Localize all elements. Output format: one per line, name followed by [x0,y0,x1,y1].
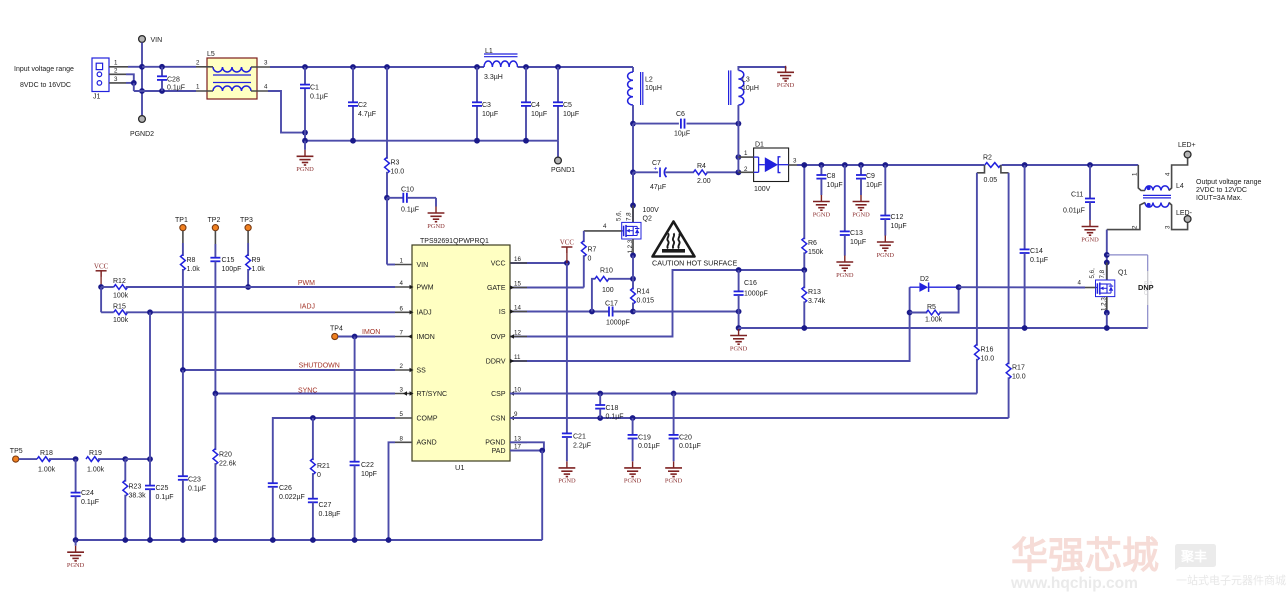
capacitor C17 [608,307,610,317]
svg-text:R13: R13 [808,289,821,296]
svg-text:3: 3 [400,387,404,394]
wire L4 pin3 to LED- [1169,203,1188,230]
pin 8 AGND U1 [395,441,412,443]
node C18 bottom [597,415,603,421]
inductor L5 [207,58,257,99]
resistor R21 [312,418,314,460]
svg-text:7,8: 7,8 [626,212,633,221]
node C10 junction [384,195,390,201]
wire D1 output stub [789,164,805,166]
wire VCC to R15 [100,287,102,312]
svg-text:100V: 100V [754,186,771,193]
svg-text:1.00k: 1.00k [87,467,105,474]
ground PGND input [304,141,306,150]
pin 4 PWM U1 [395,286,412,288]
node rail C14 [1022,162,1028,168]
node Q1 drain [1104,260,1110,266]
node rail C26 [270,537,276,543]
svg-text:4: 4 [264,84,268,91]
node ground rail C1 [302,138,308,144]
node VIN input junction [139,64,145,70]
ground PGND C8 [820,195,822,202]
inductor L3 [738,70,743,105]
svg-text:10µF: 10µF [850,239,866,246]
node D2 cathode [956,284,962,290]
node C6 right / L3 bottom [736,121,742,127]
node R18/R19 [73,456,79,462]
wire L5 pin4 to ground row [268,91,305,133]
capacitor C20 [673,394,675,435]
wire L4 pin2 [1107,203,1145,230]
resistor R10 [595,276,609,281]
svg-text:C5: C5 [563,102,572,109]
wire PAD to rail [541,451,543,541]
wire top input row to L5 [142,66,196,68]
wire Q1 source to rail [1106,313,1108,328]
svg-text:2.2µF: 2.2µF [573,443,591,450]
svg-text:10: 10 [514,387,521,394]
svg-text:R16: R16 [981,347,994,354]
svg-text:R14: R14 [637,289,650,296]
svg-text:1.00k: 1.00k [38,467,56,474]
node ground rail C3 [474,138,480,144]
svg-text:LED-: LED- [1176,210,1193,217]
svg-text:4: 4 [1078,280,1082,287]
svg-text:C13: C13 [850,230,863,237]
svg-text:PAD: PAD [492,448,506,455]
test point TP2 [212,225,218,231]
svg-text:C18: C18 [606,405,619,412]
resistor R18 [19,458,37,460]
svg-text:聚丰: 聚丰 [1180,549,1207,564]
svg-text:PGND: PGND [665,478,683,485]
ground PGND mid [738,328,740,329]
wire Q2 source to R14 [632,255,634,278]
svg-text:GATE: GATE [487,285,506,292]
node rail C27 [310,537,316,543]
svg-text:2VDC to 12VDC: 2VDC to 12VDC [1196,187,1247,194]
capacitor C26 [268,482,278,484]
svg-text:150k: 150k [808,249,824,256]
resistor R12 [101,286,114,288]
node PAD junction [539,448,545,454]
wire D1 pin2 stub [738,171,753,173]
svg-text:2: 2 [114,68,118,75]
node SYNC/C15 [213,391,219,397]
svg-text:8: 8 [400,435,404,442]
node R10/R14 junction [630,276,636,282]
test point TP1 [180,225,186,231]
svg-text:R5: R5 [927,304,936,311]
capacitor C18 [599,394,601,405]
svg-text:C11: C11 [1071,192,1083,199]
svg-text:10µF: 10µF [563,111,579,118]
svg-text:C8: C8 [827,173,836,180]
node C28 bottom [159,88,165,94]
node rail R20 [213,537,219,543]
ground PGND C12 [884,236,886,243]
svg-text:SYNC: SYNC [298,387,317,394]
svg-text:100: 100 [602,287,614,294]
connector J1 [92,58,109,92]
svg-text:PGND: PGND [813,211,831,218]
wire L3 top to PGND [738,67,785,70]
resistor R2 [985,163,1001,168]
capacitor C27 [308,498,318,500]
svg-text:10µH: 10µH [742,85,759,92]
capacitor C5 [557,67,559,102]
test point TP5 [13,456,19,462]
svg-text:DNP: DNP [1138,283,1154,292]
node C7 left [630,169,636,175]
wire VCC pin to symbol [510,262,567,264]
svg-text:PGND: PGND [1081,236,1099,243]
svg-text:C27: C27 [319,502,332,509]
node C17 left [589,309,595,315]
svg-text:2: 2 [1132,225,1139,229]
svg-text:10µF: 10µF [674,131,690,138]
transistor Q1 [1106,263,1108,281]
wire L5 pin2 stub [196,66,213,68]
svg-text:R21: R21 [317,463,330,470]
pin 11 DDRV U1 [510,360,527,362]
resistor R9 [247,231,249,243]
wire J1 pin3 [109,82,126,84]
resistor R5 [910,312,928,314]
svg-text:LED+: LED+ [1178,142,1196,149]
node C25 top [147,456,153,462]
node C2 top [350,64,356,70]
svg-text:10pF: 10pF [361,471,377,478]
svg-text:1000pF: 1000pF [744,291,768,298]
svg-text:2.00: 2.00 [697,178,711,185]
capacitor C12 [884,165,886,215]
diode D2 [910,286,920,288]
svg-text:TPS92691QPWPRQ1: TPS92691QPWPRQ1 [420,238,489,245]
test point LED- [1184,216,1191,223]
svg-text:5,6,: 5,6, [616,210,623,221]
wire to bottom input row [133,83,135,91]
svg-text:SHUTDOWN: SHUTDOWN [299,363,340,370]
svg-text:0.1µF: 0.1µF [606,414,624,421]
svg-text:AGND: AGND [417,440,437,447]
pin 16 VCC U1 [510,262,527,264]
node C14 bottom [1022,325,1028,331]
svg-text:7: 7 [400,330,404,337]
capacitor C2 [352,67,354,102]
svg-text:9: 9 [514,411,518,418]
svg-text:PGND: PGND [777,82,795,89]
svg-text:7,8: 7,8 [1099,269,1106,278]
wire IS net [510,311,609,313]
svg-text:10µF: 10µF [482,111,498,118]
svg-text:+: + [654,166,658,173]
svg-text:SS: SS [417,367,427,374]
svg-text:L5: L5 [207,51,215,58]
wire J1 pin1 to VIN node [109,66,128,68]
node rail C8 [819,162,825,168]
svg-text:10.0: 10.0 [981,356,995,363]
wire PGND sense rail [739,327,1148,329]
capacitor C14 [1024,165,1026,249]
svg-text:3: 3 [114,76,118,83]
wire bottom input row to L5 [134,90,196,92]
resistor R6 [803,165,805,239]
svg-text:PGND: PGND [296,166,314,173]
pin 2 SS U1 [395,369,412,371]
wire switch node down to Q2 [632,172,634,222]
svg-text:0: 0 [317,472,321,479]
svg-text:C10: C10 [401,187,414,194]
svg-text:PGND2: PGND2 [130,131,154,138]
svg-text:Input voltage range: Input voltage range [14,66,74,73]
ground PGND C13 [844,256,846,263]
node Q2 drain [630,203,636,209]
node C28 top [159,64,165,70]
svg-text:17: 17 [514,444,521,451]
svg-text:10µF: 10µF [531,111,547,118]
svg-text:100k: 100k [113,293,129,300]
capacitor C7 polarized [633,171,658,173]
wire L5 pin1 stub [196,90,213,92]
svg-text:R8: R8 [187,257,196,264]
node R3 top [384,64,390,70]
pin 12 OVP U1 [510,336,527,338]
resistor R1 DNP ghost [1107,254,1148,256]
capacitor C13 [844,165,846,231]
ground PGND C21 [566,461,568,468]
resistor R15 [101,311,114,313]
svg-text:R19: R19 [89,450,102,457]
svg-text:CSP: CSP [491,391,506,398]
ground PGND C20 [673,461,675,468]
svg-text:38.3k: 38.3k [129,493,147,500]
svg-text:2: 2 [400,363,404,370]
ground PGND C19 [632,461,634,468]
svg-text:PWM: PWM [298,280,315,287]
pin 3 RT/SYNC U1 [395,393,412,395]
resistor R16 [975,344,980,360]
svg-text:C20: C20 [679,435,692,442]
wire L2 column down [632,124,634,203]
svg-text:10µF: 10µF [866,182,882,189]
test point LED+ [1184,151,1191,158]
svg-text:PGND1: PGND1 [551,167,575,174]
wire PGND/PAD return [510,442,544,450]
svg-text:J1: J1 [93,94,101,101]
node rail C24 [73,537,79,543]
ground PGND C10 [435,198,437,207]
svg-text:22.6k: 22.6k [219,461,237,468]
ground PGND C11 [1089,220,1091,227]
svg-text:10µF: 10µF [827,182,843,189]
svg-text:0.18µF: 0.18µF [319,511,341,518]
node R5 left [907,310,913,316]
node rail R6 [801,162,807,168]
svg-text:TP5: TP5 [10,448,23,455]
svg-text:C15: C15 [222,257,235,264]
svg-text:PGND: PGND [427,223,445,230]
wire IMON [338,336,395,338]
svg-text:3.74k: 3.74k [808,298,826,305]
svg-text:C4: C4 [531,102,540,109]
svg-text:15: 15 [514,281,521,288]
svg-text:IOUT=3A Max.: IOUT=3A Max. [1196,195,1242,202]
wire Q2 gate stub [584,230,622,232]
wire J1 pin2 [109,73,126,75]
svg-text:TP3: TP3 [240,217,253,224]
svg-text:16: 16 [514,256,521,263]
svg-text:PWM: PWM [417,284,434,291]
node PGND2 row junction [139,88,145,94]
svg-text:2: 2 [196,60,200,67]
svg-text:4: 4 [603,223,607,230]
svg-text:TP2: TP2 [208,217,221,224]
svg-text:0.022µF: 0.022µF [279,494,305,501]
svg-text:1: 1 [400,258,404,265]
svg-text:R9: R9 [252,257,261,264]
wire to C25 [125,458,150,460]
node ground rail C2 [350,138,356,144]
wire L5 pin3 stub [251,66,272,68]
wire D1 pin1 stub [738,156,753,158]
svg-text:R6: R6 [808,240,817,247]
svg-text:VCC: VCC [491,260,506,267]
wire IS row to C16 column [633,311,739,313]
capacitor C8 [820,165,822,175]
pin 7 IMON U1 [395,336,412,338]
svg-text:1: 1 [114,60,118,67]
svg-text:C3: C3 [482,102,491,109]
wire L4 pin1 [1138,165,1145,191]
node R14 bottom [630,309,636,315]
pin 17 PAD U1 [510,450,527,452]
node C5 top [555,64,561,70]
pin 1 VIN U1 [395,264,412,266]
svg-text:R20: R20 [219,452,232,459]
svg-text:D2: D2 [920,276,929,283]
svg-text:1,2,3: 1,2,3 [1101,297,1108,311]
svg-text:0.01µF: 0.01µF [679,443,701,450]
node rail C9 [858,162,864,168]
svg-text:IMON: IMON [417,334,435,341]
svg-text:C22: C22 [361,462,374,469]
node J1 pin2/pin3 junction [131,80,137,86]
node C4 top / L1 right [523,64,529,70]
ground PGND C9 [860,195,862,202]
wire output rail [797,164,984,166]
svg-text:3: 3 [264,60,268,67]
svg-text:R23: R23 [129,484,142,491]
node rail AGND [386,537,392,543]
svg-text:PGND: PGND [67,562,85,569]
wire VCC rail down to C21 [566,263,568,433]
svg-text:1.0k: 1.0k [187,266,201,273]
wire main input rail [270,66,484,68]
svg-text:1: 1 [1132,172,1139,176]
node COMP/R21 [310,415,316,421]
node L5 pin4 / C1 column junction [302,130,308,136]
resistor R3 [386,67,388,159]
svg-text:CSN: CSN [491,415,506,422]
wire SHUTDOWN net [183,369,395,371]
node C16 bottom row [736,309,742,315]
svg-text:1000pF: 1000pF [606,320,630,327]
svg-text:C12: C12 [891,214,904,221]
resistor R4 [693,170,707,175]
svg-text:47µF: 47µF [650,184,666,191]
svg-text:PGND: PGND [558,478,576,485]
svg-text:R2: R2 [983,155,992,162]
svg-text:0.1µF: 0.1µF [167,85,185,92]
svg-text:IADJ: IADJ [417,310,432,317]
capacitor C28 [161,67,163,76]
wire IADJ column down [149,312,151,459]
svg-text:C19: C19 [638,435,651,442]
svg-text:TP1: TP1 [175,217,188,224]
node Q1 source [1104,310,1110,316]
svg-text:0.1µF: 0.1µF [81,499,99,506]
svg-text:100pF: 100pF [222,266,242,273]
wire input ground rail [305,140,558,142]
svg-text:10µH: 10µH [645,85,662,92]
svg-text:Output voltage range: Output voltage range [1196,179,1261,186]
wire DDRV net [510,287,910,361]
resistor R14 [632,279,634,290]
node R19/R23 [122,456,128,462]
node R13 bottom [801,325,807,331]
wire Q1 gate stub [1085,287,1096,289]
node rail C23 [180,537,186,543]
svg-text:0.01µF: 0.01µF [638,443,660,450]
node rail R23 [122,537,128,543]
wire SYNC net [215,393,395,395]
node ground rail C4 [523,138,529,144]
resistor R23 [124,459,126,482]
pin 13 PGND U1 [510,441,527,443]
pin 14 IS U1 [510,311,527,313]
svg-text:PGND: PGND [836,272,854,279]
svg-text:100k: 100k [113,317,129,324]
wire L2 to C6 node [632,105,634,124]
capacitor C15 [214,231,216,244]
svg-text:14: 14 [514,305,521,312]
node Q1 drain branch [1104,252,1110,258]
svg-text:0.1µF: 0.1µF [401,207,419,214]
svg-text:VIN: VIN [151,37,163,44]
svg-text:VIN: VIN [417,262,429,269]
wire R10 branch [592,279,596,312]
wire GATE net [510,287,584,289]
svg-text:R17: R17 [1012,365,1025,372]
svg-text:R7: R7 [588,247,597,254]
svg-text:IMON: IMON [362,329,380,336]
svg-text:1,2,3: 1,2,3 [627,239,634,253]
node VCC junction [564,260,570,266]
node rail C13 [842,162,848,168]
node C18 top [597,391,603,397]
svg-text:R12: R12 [113,278,126,285]
wire L5 pin4 stub [251,90,268,92]
pin 6 IADJ U1 [395,311,412,313]
svg-text:CAUTION HOT SURFACE: CAUTION HOT SURFACE [652,259,738,268]
capacitor C4 [525,67,527,102]
wire L4 pin4 to LED+ [1169,158,1188,191]
svg-text:C17: C17 [605,301,618,308]
op-amp U1 TPS92691 controller [412,245,510,461]
svg-text:10.0: 10.0 [1012,374,1026,381]
node D1 pin2 [736,169,742,175]
